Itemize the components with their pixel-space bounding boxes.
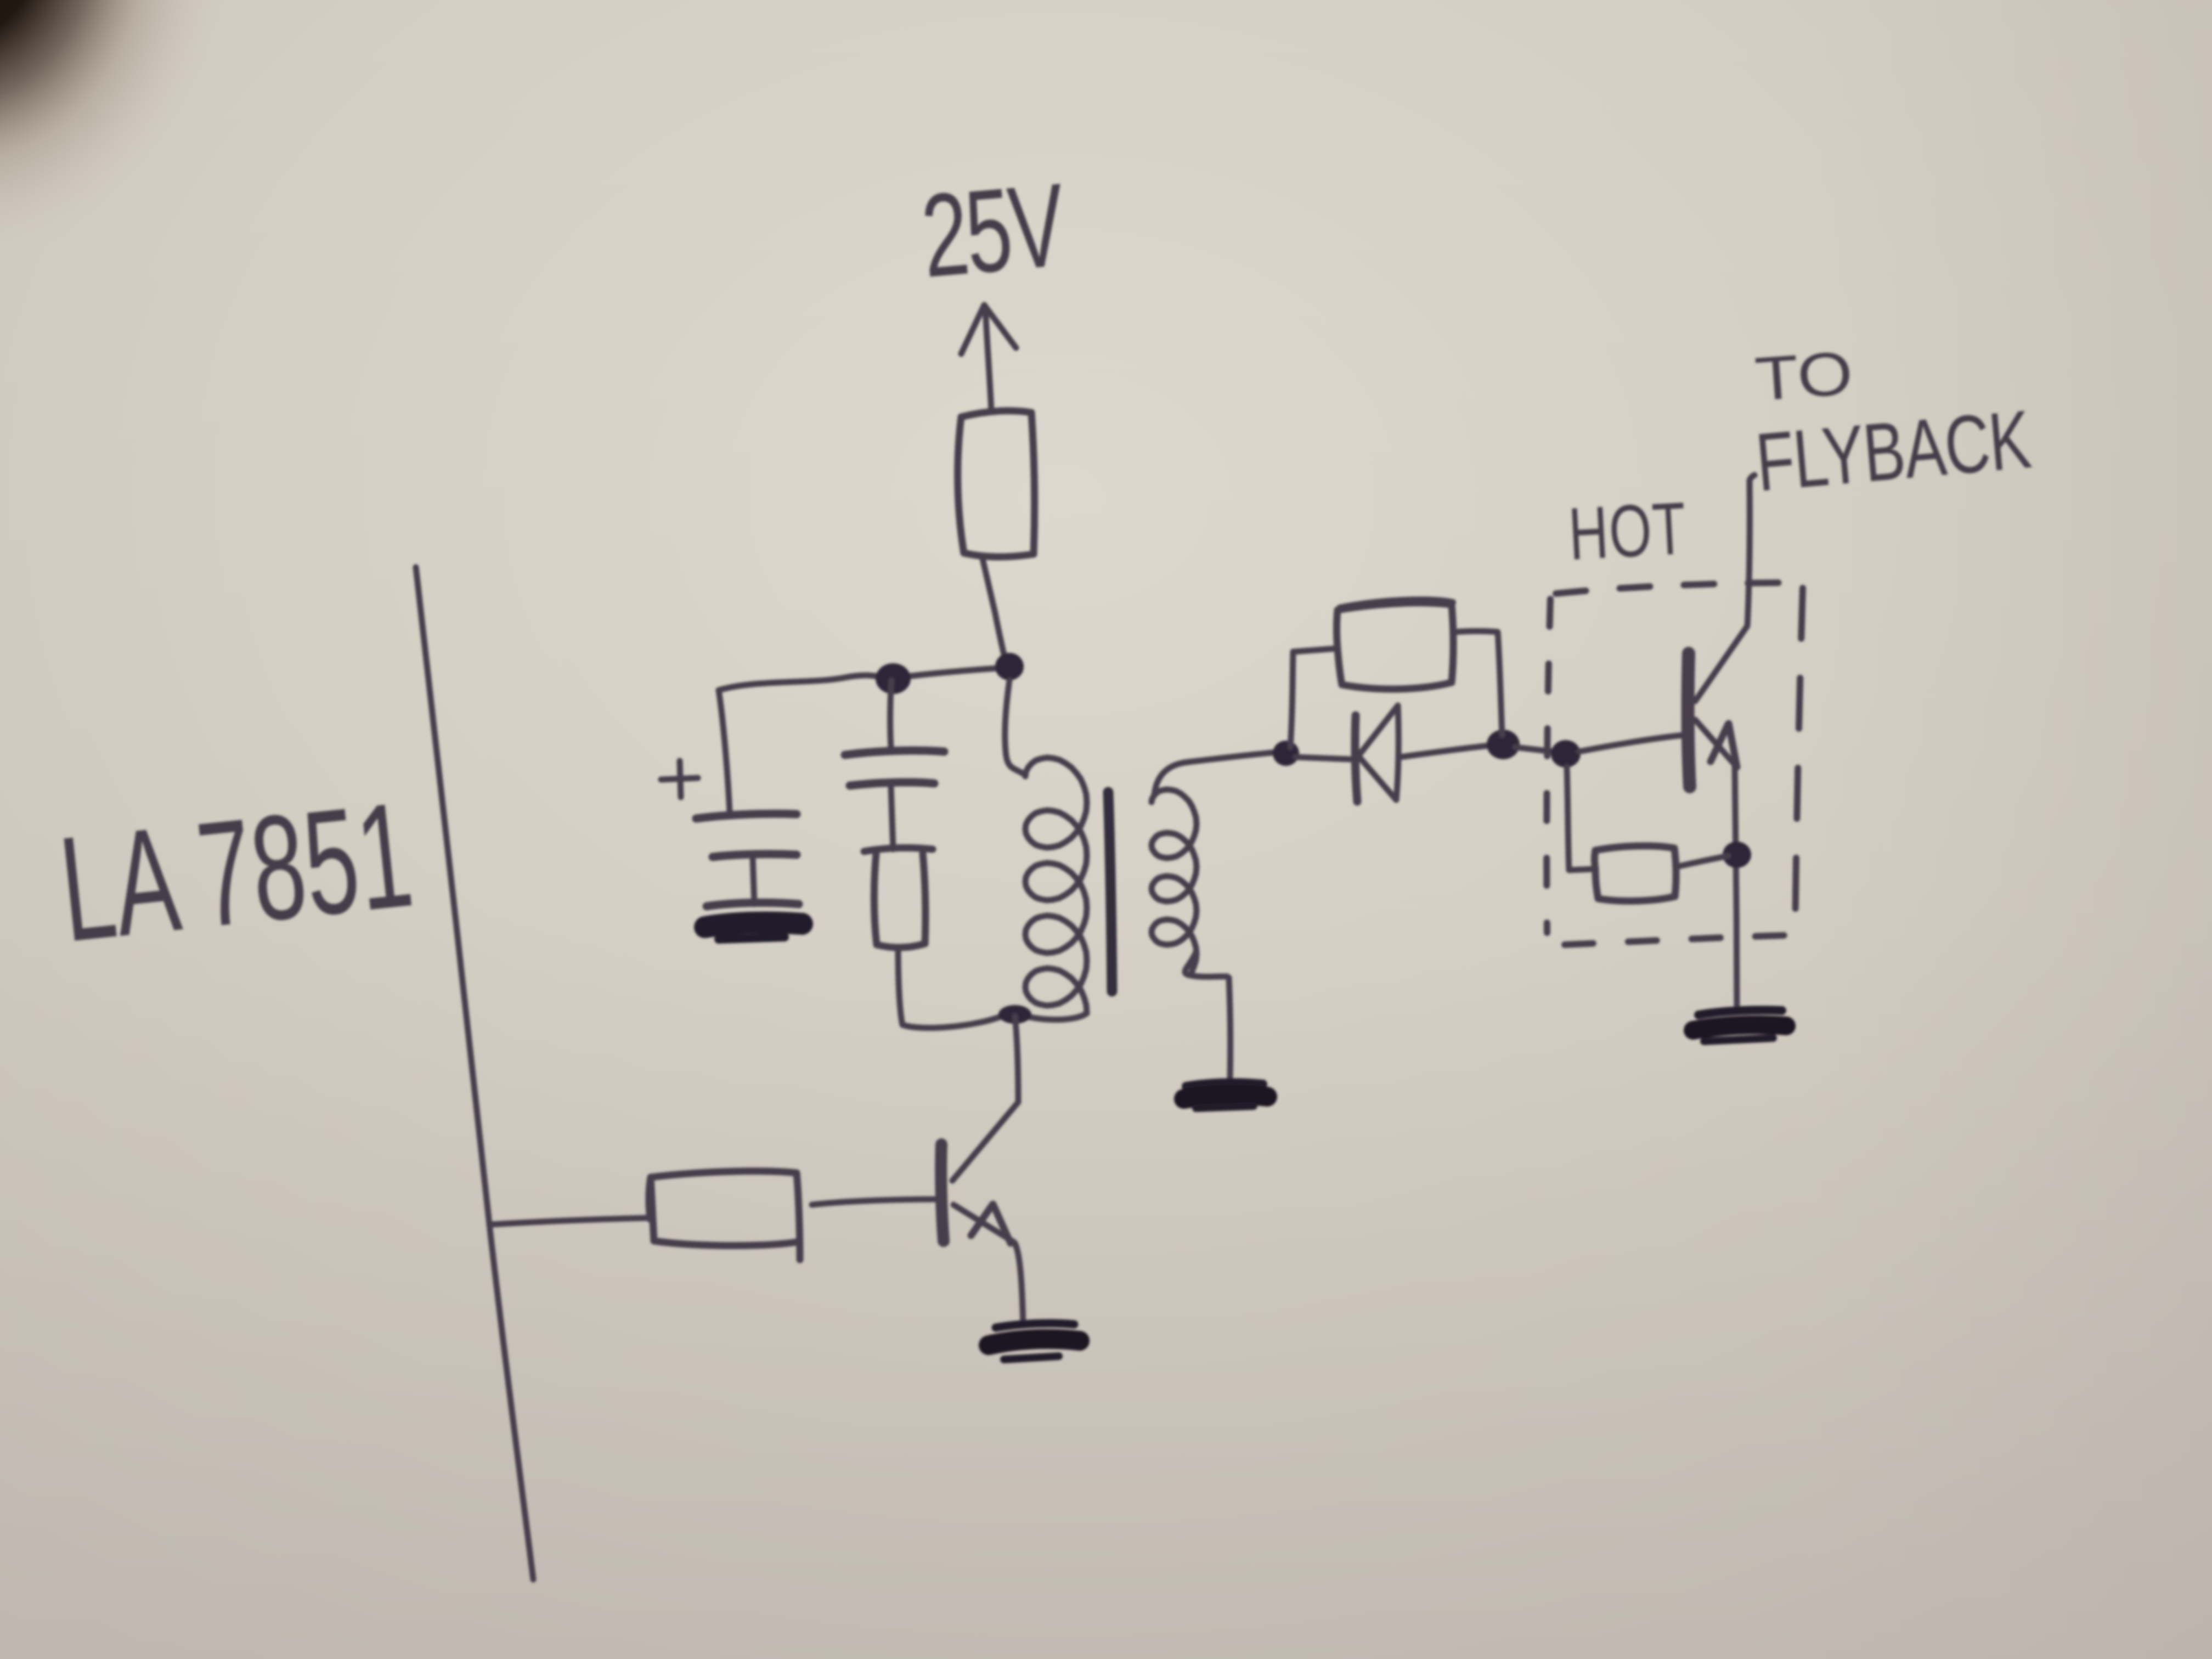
resistor R1 (collector load from 25V) — [958, 411, 1035, 557]
transformer T1 primary winding — [1025, 758, 1087, 1013]
ground G1 — [705, 902, 802, 939]
svg-text:HOT: HOT — [1567, 487, 1689, 575]
dashed box HOT: bottom edge — [1565, 935, 1801, 945]
transformer T1 core — [1108, 792, 1112, 991]
node A junction dot — [876, 663, 911, 694]
wire down to capacitor C1 — [719, 690, 730, 812]
node D junction dot — [1273, 741, 1299, 766]
transistor Q1 base resistor R5 left wire from LA7851 — [491, 1218, 647, 1224]
transistor Q2 collector — [1695, 475, 1754, 701]
IC LA7851 edge line — [416, 567, 533, 1579]
wire Q2 emitter down to ground — [1735, 764, 1737, 1012]
wire secondary bottom to ground — [1229, 978, 1231, 1080]
wire top horizontal (node A to node B to C1 branch) — [719, 675, 891, 690]
label 25V — [917, 158, 1070, 302]
capacitor C2 plates — [845, 751, 944, 786]
diode D1 triangle — [1358, 706, 1398, 800]
transistor Q1 base bar — [941, 1144, 944, 1241]
wire node F down to resistor R4 — [1567, 767, 1594, 870]
transformer T1 primary exit to node C — [1022, 1013, 1087, 1020]
wire R4 to node G — [1677, 856, 1728, 867]
wire diode D1 to node E — [1400, 745, 1495, 757]
diode D1 cathode bar — [1355, 715, 1357, 802]
wire Q1 emitter to ground — [1015, 1243, 1023, 1325]
dashed box HOT: right edge — [1795, 588, 1803, 938]
transformer T1 secondary winding — [1152, 789, 1197, 971]
resistor R4 (base-emitter) — [1595, 846, 1677, 901]
ground G2 — [989, 1323, 1080, 1359]
node B junction dot — [995, 653, 1024, 680]
capacitor C1 plus sign — [661, 761, 698, 797]
resistor R3 body — [1337, 600, 1454, 689]
25V supply arrow — [961, 305, 1016, 412]
wire node E to node F — [1515, 747, 1553, 752]
node F junction dot — [1551, 740, 1581, 768]
capacitor C1 electrolytic plates — [696, 814, 797, 857]
wire node D to diode D1 — [1296, 757, 1351, 759]
transformer T1 primary entry from node B — [1005, 680, 1025, 775]
dashed box HOT: top edge — [1556, 583, 1802, 594]
transistor Q2 (HOT) base bar — [1688, 653, 1690, 787]
resistor R5 — [649, 1171, 800, 1260]
node G junction dot (emitter/R4) — [1723, 842, 1751, 868]
transformer T1 secondary top wire to node D — [1154, 752, 1278, 795]
resistor R3 over diode: left riser from node D — [1290, 648, 1336, 747]
dark photo corner top-left — [0, 0, 269, 302]
dashed box HOT: left edge — [1547, 599, 1550, 933]
svg-text:25V: 25V — [917, 158, 1070, 302]
resistor R3 right wire down to node E — [1454, 631, 1502, 736]
wire R1 bottom to node B — [982, 556, 1006, 665]
transistor Q1 emitter with arrow — [953, 1205, 1014, 1242]
ground G3 — [1184, 1082, 1267, 1108]
wire R2 bottom to node C — [898, 947, 1005, 1028]
transformer T1 secondary exit bottom — [1185, 952, 1227, 977]
wire node A down to capacitor C2 — [890, 680, 891, 747]
wire C1 to ground — [753, 857, 754, 904]
ground G4 — [1693, 1010, 1786, 1041]
svg-text:TO: TO — [1753, 338, 1855, 414]
wire C2 to resistor R2 — [891, 787, 893, 849]
resistor R2 (snubber) — [864, 848, 933, 947]
transistor Q2 emitter with arrow — [1695, 720, 1736, 766]
wire node F to Q2 base — [1579, 735, 1683, 752]
node C junction dot — [998, 1005, 1031, 1024]
node E junction dot — [1487, 730, 1520, 759]
wire R5 to Q1 base — [812, 1199, 936, 1205]
transistor Q1 collector wire from node C — [952, 1016, 1018, 1181]
